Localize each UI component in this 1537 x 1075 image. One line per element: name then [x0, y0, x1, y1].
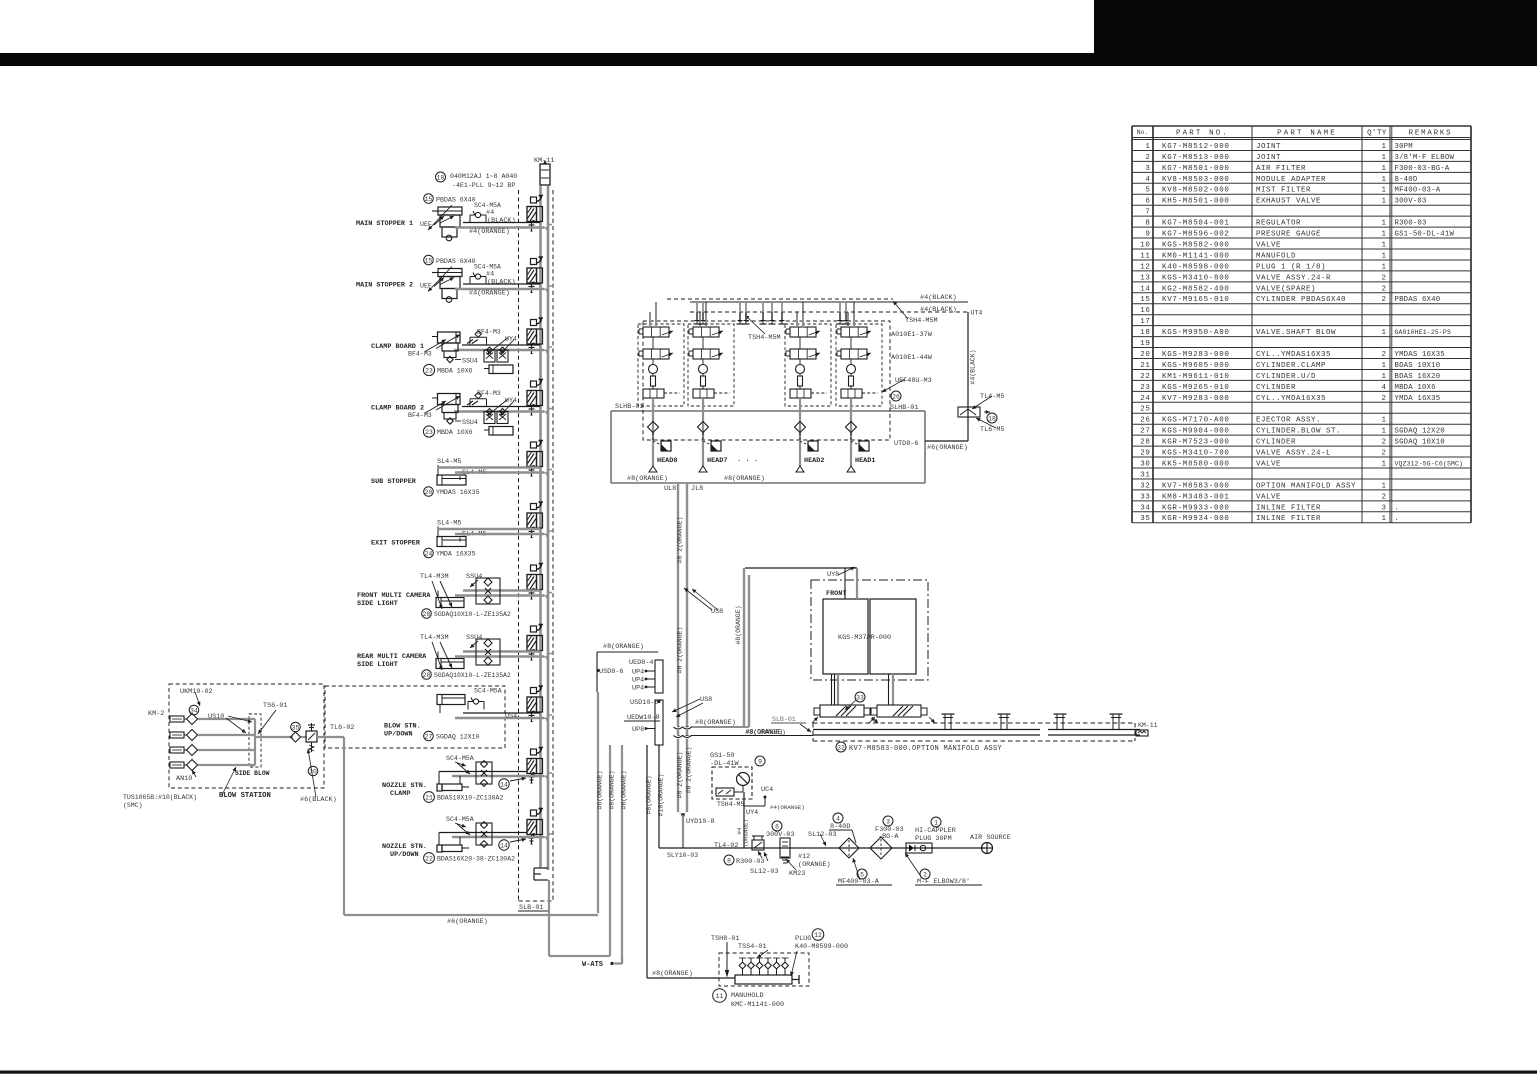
- svg-text:SGDAQ10X10-L-ZE135A2: SGDAQ10X10-L-ZE135A2: [434, 672, 511, 679]
- svg-text:#8(ORANGE): #8(ORANGE): [627, 475, 668, 483]
- svg-text:GS1-50-DL-41W: GS1-50-DL-41W: [1395, 231, 1455, 239]
- svg-text:CYLINDER: CYLINDER: [1256, 439, 1296, 447]
- svg-text:US8: US8: [700, 696, 712, 704]
- svg-text:KV7-M8583-000.OPTION MANIFOLD: KV7-M8583-000.OPTION MANIFOLD ASSY: [849, 745, 1003, 753]
- svg-text:4: 4: [1145, 176, 1150, 184]
- svg-text:(ORANGE): (ORANGE): [798, 861, 831, 869]
- svg-text:UED8-4: UED8-4: [629, 659, 653, 667]
- svg-text:SGDAQ 10X10: SGDAQ 10X10: [1395, 439, 1445, 447]
- svg-text:2: 2: [1145, 154, 1150, 162]
- svg-text:23: 23: [1140, 384, 1150, 392]
- svg-text:VALVE ASSY.24-R: VALVE ASSY.24-R: [1256, 274, 1331, 282]
- svg-text:UP4: UP4: [632, 669, 644, 677]
- svg-text:27: 27: [1140, 428, 1150, 436]
- svg-text:KG2-M8582-400: KG2-M8582-400: [1162, 285, 1230, 293]
- svg-text:1: 1: [1381, 428, 1386, 436]
- svg-text:#6(ORANGE): #6(ORANGE): [927, 444, 968, 452]
- svg-text:FRONT: FRONT: [826, 590, 846, 598]
- svg-text:18: 18: [1140, 329, 1150, 337]
- svg-text:REAR MULTI CAMERA: REAR MULTI CAMERA: [357, 653, 427, 661]
- svg-text:MF400-03-A: MF400-03-A: [1395, 187, 1441, 195]
- svg-text:UTD8-6: UTD8-6: [894, 440, 918, 448]
- svg-text:PLUG: PLUG: [795, 935, 811, 943]
- svg-text:1: 1: [1381, 187, 1386, 195]
- svg-text:F300-03-BG-A: F300-03-BG-A: [1395, 165, 1450, 173]
- svg-text:17: 17: [1140, 318, 1150, 326]
- svg-text:3/8'M-F ELBOW: 3/8'M-F ELBOW: [1395, 154, 1455, 162]
- svg-text:KV8-M8503-000: KV8-M8503-000: [1162, 176, 1230, 184]
- svg-text:24: 24: [1140, 395, 1150, 403]
- svg-text:AIR FILTER: AIR FILTER: [1256, 165, 1306, 173]
- svg-text:MAIN STOPPER 2: MAIN STOPPER 2: [356, 282, 413, 290]
- svg-text:28: 28: [1140, 439, 1150, 447]
- svg-text:SLHB-01: SLHB-01: [615, 403, 644, 411]
- svg-text:23: 23: [425, 368, 433, 375]
- svg-text:11: 11: [716, 993, 724, 1000]
- svg-text:.: .: [1395, 504, 1400, 512]
- svg-text:32: 32: [837, 745, 845, 752]
- svg-text:TSH4-M5M: TSH4-M5M: [905, 317, 938, 325]
- svg-text:21: 21: [425, 795, 433, 802]
- svg-text:MAIN STOPPER 1: MAIN STOPPER 1: [356, 220, 413, 228]
- svg-text:SSU4: SSU4: [466, 573, 482, 581]
- svg-text:EXIT STOPPER: EXIT STOPPER: [371, 540, 421, 548]
- svg-text:CYLINDER: CYLINDER: [1256, 384, 1296, 392]
- svg-text:PBDAS 6X40: PBDAS 6X40: [436, 258, 476, 265]
- svg-text:TL4-02: TL4-02: [714, 842, 738, 850]
- svg-text:1: 1: [1381, 165, 1386, 173]
- svg-text:PBDAS 6X40: PBDAS 6X40: [436, 197, 476, 204]
- svg-text:KH5-M8501-000: KH5-M8501-000: [1162, 198, 1230, 206]
- svg-text:35: 35: [292, 725, 300, 732]
- svg-text:TSH8-01: TSH8-01: [711, 935, 740, 943]
- svg-text:1: 1: [1381, 460, 1386, 468]
- svg-text:6: 6: [775, 824, 779, 831]
- svg-text:21: 21: [1140, 362, 1150, 370]
- svg-text:Q'TY: Q'TY: [1367, 129, 1387, 137]
- svg-text:SIDE BLOW: SIDE BLOW: [235, 770, 270, 777]
- svg-text:KG7-M8504-001: KG7-M8504-001: [1162, 220, 1230, 228]
- svg-text:SGDAQ10X10-L-ZE135A2: SGDAQ10X10-L-ZE135A2: [434, 611, 511, 618]
- svg-text:#8(ORANGE): #8(ORANGE): [735, 605, 742, 644]
- svg-text:1: 1: [1381, 252, 1386, 260]
- svg-text:US4: US4: [505, 713, 517, 721]
- svg-text:25: 25: [1140, 406, 1150, 414]
- svg-text:24: 24: [425, 551, 433, 558]
- svg-text:14: 14: [500, 782, 508, 789]
- svg-text:6: 6: [1145, 198, 1150, 206]
- svg-text:KMC-M1141-000: KMC-M1141-000: [731, 1001, 784, 1009]
- svg-text:SL12-03: SL12-03: [750, 868, 779, 876]
- svg-text:TSH4-M5M: TSH4-M5M: [748, 334, 781, 342]
- svg-text:9: 9: [1145, 231, 1150, 239]
- svg-text:20: 20: [1140, 351, 1150, 359]
- svg-text:UYD10-8: UYD10-8: [686, 818, 715, 826]
- svg-text:TL6-M5: TL6-M5: [980, 426, 1004, 434]
- svg-text:300V-03: 300V-03: [1395, 198, 1427, 206]
- svg-text:2: 2: [1381, 439, 1386, 447]
- svg-text:#4(ORANGE): #4(ORANGE): [469, 228, 510, 236]
- svg-text:2: 2: [1381, 351, 1386, 359]
- svg-text:BLOW STN.: BLOW STN.: [384, 723, 421, 731]
- svg-text:#8(ORANGE): #8(ORANGE): [746, 729, 783, 736]
- svg-text:UY8: UY8: [827, 571, 839, 579]
- svg-text:TSH4-M5: TSH4-M5: [717, 801, 744, 808]
- svg-text:KG7-M8513-000: KG7-M8513-000: [1162, 154, 1230, 162]
- svg-text:KM-2: KM-2: [148, 710, 164, 718]
- svg-text:GA010HE1-25-PS: GA010HE1-25-PS: [1395, 329, 1452, 336]
- svg-text:BDAS 10X10: BDAS 10X10: [1395, 362, 1441, 370]
- svg-text:INLINE FILTER: INLINE FILTER: [1256, 515, 1321, 523]
- svg-text:15: 15: [425, 196, 433, 203]
- svg-text:26: 26: [1140, 417, 1150, 425]
- svg-text:YMDA 16X35: YMDA 16X35: [1395, 395, 1441, 403]
- svg-text:4: 4: [836, 816, 840, 823]
- svg-text:33: 33: [856, 695, 864, 702]
- svg-text:11: 11: [1140, 252, 1150, 260]
- svg-text:VALVE: VALVE: [1256, 460, 1281, 468]
- svg-text:#8(ORANGE): #8(ORANGE): [603, 643, 644, 651]
- svg-text:SC4-M5A: SC4-M5A: [474, 688, 502, 695]
- svg-text:1: 1: [1381, 362, 1386, 370]
- svg-text:TUS1065B:#10(BLACK): TUS1065B:#10(BLACK): [123, 794, 197, 801]
- svg-text:2: 2: [1381, 285, 1386, 293]
- svg-text:22: 22: [1140, 373, 1150, 381]
- svg-text:HEAD1: HEAD1: [855, 457, 875, 465]
- svg-text:3: 3: [886, 819, 890, 826]
- svg-text:12: 12: [814, 932, 822, 939]
- svg-text:VALVE ASSY.24-L: VALVE ASSY.24-L: [1256, 450, 1331, 458]
- svg-text:TL4-M3M: TL4-M3M: [420, 573, 449, 581]
- svg-text:#8(ORANGE): #8(ORANGE): [609, 770, 616, 809]
- svg-text:1: 1: [1381, 373, 1386, 381]
- svg-text:GS1-50: GS1-50: [710, 752, 734, 760]
- svg-text:#4: #4: [486, 271, 494, 279]
- svg-text:JOINT: JOINT: [1256, 154, 1281, 162]
- svg-text:MODULE ADAPTER: MODULE ADAPTER: [1256, 176, 1326, 184]
- svg-text:CYLINDER.BLOW ST.: CYLINDER.BLOW ST.: [1256, 428, 1341, 436]
- svg-text:SIDE LIGHT: SIDE LIGHT: [357, 661, 398, 669]
- svg-text:1: 1: [1381, 176, 1386, 184]
- svg-text:REMARKS: REMARKS: [1409, 129, 1453, 137]
- svg-text:15: 15: [425, 258, 433, 265]
- svg-text:UP/DOWN: UP/DOWN: [390, 851, 419, 859]
- svg-text:#4(BLACK): #4(BLACK): [920, 306, 957, 314]
- svg-text:#4(BLACK): #4(BLACK): [920, 294, 957, 302]
- svg-text:-4E1-PLL 9~12 BP: -4E1-PLL 9~12 BP: [452, 182, 515, 189]
- svg-text:YMDA 16X35: YMDA 16X35: [436, 551, 476, 558]
- svg-text:USD8-6: USD8-6: [599, 668, 623, 676]
- svg-text:1: 1: [1381, 263, 1386, 271]
- svg-text:#4: #4: [486, 209, 494, 217]
- svg-text:(ORANGE): (ORANGE): [743, 819, 750, 847]
- svg-text:#8 2(ORANGE): #8 2(ORANGE): [677, 752, 684, 799]
- svg-text:CYLINDER.CLAMP: CYLINDER.CLAMP: [1256, 362, 1326, 370]
- svg-text:30: 30: [309, 769, 317, 776]
- svg-text:13: 13: [1140, 274, 1150, 282]
- svg-text:2: 2: [1381, 274, 1386, 282]
- svg-text:SLY10-03: SLY10-03: [667, 852, 698, 859]
- svg-text:KV7-M9165-010: KV7-M9165-010: [1162, 296, 1230, 304]
- svg-text:SGDAQ 12X20: SGDAQ 12X20: [1395, 428, 1445, 436]
- svg-text:7: 7: [1145, 209, 1150, 217]
- svg-text:SC4-M5A: SC4-M5A: [474, 202, 501, 209]
- svg-text:TL6-02: TL6-02: [330, 724, 354, 732]
- svg-text:1: 1: [1381, 241, 1386, 249]
- svg-text:UP4: UP4: [632, 685, 644, 693]
- svg-text:SC4-M5A: SC4-M5A: [474, 264, 501, 271]
- svg-text:KGS-M3410-800: KGS-M3410-800: [1162, 274, 1230, 282]
- svg-text:KM8-M3483-001: KM8-M3483-001: [1162, 493, 1230, 501]
- svg-text:YMDAS 16X35: YMDAS 16X35: [436, 489, 480, 496]
- svg-text:HI-CAPPLER: HI-CAPPLER: [915, 827, 956, 835]
- svg-text:SLB-01: SLB-01: [772, 716, 796, 723]
- svg-text:35: 35: [1140, 515, 1150, 523]
- svg-text:1: 1: [1381, 482, 1386, 490]
- svg-text:OPTION MANIFOLD ASSY: OPTION MANIFOLD ASSY: [1256, 482, 1356, 490]
- svg-text:KGS-M7170-A00: KGS-M7170-A00: [1162, 417, 1230, 425]
- svg-text:KM1-M9611-010: KM1-M9611-010: [1162, 373, 1230, 381]
- svg-text:MIST FILTER: MIST FILTER: [1256, 187, 1311, 195]
- svg-text:UT4: UT4: [971, 310, 983, 317]
- svg-text:33: 33: [1140, 493, 1150, 501]
- svg-text:12: 12: [1140, 263, 1150, 271]
- svg-text:VALVE.SHAFT BLOW: VALVE.SHAFT BLOW: [1256, 329, 1336, 337]
- svg-text:BLOW STATION: BLOW STATION: [219, 792, 271, 800]
- svg-text:AIR SOURCE: AIR SOURCE: [970, 834, 1011, 842]
- svg-text:UEF48U-M3: UEF48U-M3: [895, 377, 932, 385]
- svg-text:28: 28: [423, 672, 431, 679]
- svg-text:SSU4: SSU4: [462, 358, 478, 365]
- svg-text:BDAS10X10-ZC130A2: BDAS10X10-ZC130A2: [437, 795, 503, 802]
- svg-text:HEAD7: HEAD7: [707, 457, 727, 465]
- svg-text:040M12AJ 1~8 A040: 040M12AJ 1~8 A040: [450, 173, 517, 180]
- svg-text:31: 31: [1140, 471, 1150, 479]
- svg-text:UY4: UY4: [746, 809, 758, 817]
- svg-text:TSS4-01: TSS4-01: [738, 943, 767, 951]
- svg-text:32: 32: [1140, 482, 1150, 490]
- svg-text:CYLINDER PBDAS6X40: CYLINDER PBDAS6X40: [1256, 296, 1346, 304]
- svg-text:SC4-M5A: SC4-M5A: [446, 816, 474, 823]
- svg-text:VALVE: VALVE: [1256, 493, 1281, 501]
- svg-text:2: 2: [1381, 395, 1386, 403]
- svg-text:BDAS16X20-38-ZC130A2: BDAS16X20-38-ZC130A2: [437, 856, 515, 863]
- svg-text:#12: #12: [798, 853, 810, 861]
- svg-text:A010E1-44W: A010E1-44W: [891, 354, 933, 362]
- svg-text:2: 2: [1381, 296, 1386, 304]
- svg-text:CYL..YMDA16X35: CYL..YMDA16X35: [1256, 395, 1326, 403]
- svg-text:14: 14: [1140, 285, 1150, 293]
- svg-text:SIDE LIGHT: SIDE LIGHT: [357, 600, 398, 608]
- svg-text:SC4-M5A: SC4-M5A: [446, 755, 474, 762]
- svg-text:27: 27: [425, 734, 433, 741]
- svg-text:No.: No.: [1137, 129, 1148, 136]
- svg-text:#8(ORANGE): #8(ORANGE): [695, 719, 736, 727]
- svg-text:MBDA 10X6: MBDA 10X6: [1395, 384, 1436, 392]
- svg-text:#4(ORANGE): #4(ORANGE): [770, 804, 805, 811]
- svg-text:USD10-8: USD10-8: [630, 699, 659, 707]
- svg-text:KGS-M9904-000: KGS-M9904-000: [1162, 428, 1230, 436]
- svg-text:W-ATS: W-ATS: [582, 961, 603, 969]
- svg-text:EXHAUST VALVE: EXHAUST VALVE: [1256, 198, 1321, 206]
- svg-text:#8 2(ORANGE): #8 2(ORANGE): [686, 747, 693, 794]
- svg-text:TS6-01: TS6-01: [263, 702, 287, 710]
- svg-text:29: 29: [1140, 450, 1150, 458]
- svg-text:VALVE: VALVE: [1256, 241, 1281, 249]
- svg-text:SL4-M5: SL4-M5: [437, 458, 461, 466]
- svg-text:3: 3: [1381, 504, 1386, 512]
- svg-text:KGS-M37AR-000: KGS-M37AR-000: [838, 634, 891, 642]
- svg-text:K40-M8598-000: K40-M8598-000: [1162, 263, 1230, 271]
- svg-text:KM-11: KM-11: [1138, 722, 1158, 729]
- svg-text:KGS-M9605-000: KGS-M9605-000: [1162, 362, 1230, 370]
- svg-text:5: 5: [1145, 187, 1150, 195]
- svg-text:2: 2: [1381, 493, 1386, 501]
- svg-text:PART NO.: PART NO.: [1176, 129, 1229, 137]
- svg-text:1: 1: [1381, 515, 1386, 523]
- svg-text:SSU4: SSU4: [466, 634, 482, 642]
- svg-text:1: 1: [1381, 329, 1386, 337]
- svg-text:R300-03: R300-03: [736, 858, 765, 866]
- svg-text:AN10: AN10: [176, 775, 192, 783]
- svg-text:19: 19: [1140, 340, 1150, 348]
- svg-text:MBDA 10X6: MBDA 10X6: [437, 429, 473, 436]
- svg-text:8-40D: 8-40D: [1395, 176, 1418, 184]
- svg-text:22: 22: [425, 856, 433, 863]
- svg-text:SUB STOPPER: SUB STOPPER: [371, 478, 417, 486]
- svg-text:(BLACK): (BLACK): [487, 217, 516, 225]
- svg-text:26: 26: [892, 394, 900, 401]
- svg-text:#8(ORANGE): #8(ORANGE): [621, 770, 628, 809]
- svg-text:8: 8: [1145, 220, 1150, 228]
- svg-text:KV7-M9283-000: KV7-M9283-000: [1162, 395, 1230, 403]
- svg-text:PBDAS 6X40: PBDAS 6X40: [1395, 296, 1441, 304]
- svg-text:K40-M8598-000: K40-M8598-000: [795, 943, 848, 951]
- svg-text:KK5-M8580-000: KK5-M8580-000: [1162, 460, 1230, 468]
- svg-text:SGDAQ 12X10: SGDAQ 12X10: [436, 734, 480, 741]
- svg-text:BF4-M3: BF4-M3: [408, 412, 432, 419]
- svg-text:8: 8: [727, 858, 731, 865]
- svg-text:#6(ORANGE): #6(ORANGE): [447, 918, 488, 926]
- svg-text:KGR-M7523-000: KGR-M7523-000: [1162, 439, 1230, 447]
- svg-text:3: 3: [1145, 165, 1150, 173]
- svg-text:KGR-M9933-000: KGR-M9933-000: [1162, 504, 1230, 512]
- svg-text:REGULATOR: REGULATOR: [1256, 220, 1301, 228]
- svg-text:2: 2: [1381, 450, 1386, 458]
- svg-text:UP4: UP4: [632, 677, 644, 685]
- svg-text:#6(BLACK): #6(BLACK): [300, 796, 337, 804]
- svg-text:MANUHOLD: MANUHOLD: [731, 992, 764, 1000]
- svg-text:18: 18: [988, 416, 996, 423]
- svg-text:BDAS 16X20: BDAS 16X20: [1395, 373, 1441, 381]
- svg-text:PART NAME: PART NAME: [1277, 129, 1337, 137]
- svg-text:#8(ORANGE): #8(ORANGE): [652, 970, 693, 978]
- svg-text:16: 16: [1140, 307, 1150, 315]
- svg-text:KG7-M8596-002: KG7-M8596-002: [1162, 231, 1230, 239]
- svg-text:KGR-M9934-000: KGR-M9934-000: [1162, 515, 1230, 523]
- svg-text:. . .: . . .: [737, 456, 758, 464]
- svg-text:-BG-A: -BG-A: [878, 833, 899, 841]
- svg-text:KGS-M8582-000: KGS-M8582-000: [1162, 241, 1230, 249]
- svg-text:1: 1: [1145, 143, 1150, 151]
- svg-text:#8(ORANGE): #8(ORANGE): [646, 775, 653, 814]
- svg-text:SLHB-01: SLHB-01: [890, 404, 919, 412]
- svg-text:28: 28: [423, 611, 431, 618]
- svg-text:KV7-M8583-000: KV7-M8583-000: [1162, 482, 1230, 490]
- svg-text:KV8-M8502-000: KV8-M8502-000: [1162, 187, 1230, 195]
- svg-text:1: 1: [934, 820, 938, 827]
- svg-text:9: 9: [758, 759, 762, 766]
- svg-text:10: 10: [437, 175, 445, 182]
- svg-text:#8 2(ORANGE): #8 2(ORANGE): [677, 517, 684, 564]
- svg-text:#8(ORANGE): #8(ORANGE): [724, 475, 765, 483]
- svg-text:KM23: KM23: [789, 870, 805, 878]
- svg-text:PLUG 30PM: PLUG 30PM: [915, 835, 952, 843]
- svg-text:BF4-M3: BF4-M3: [408, 351, 432, 358]
- svg-text:A010E1-37W: A010E1-37W: [891, 331, 933, 339]
- svg-text:#4(ORANGE): #4(ORANGE): [469, 290, 510, 298]
- svg-text:FRONT MULTI CAMERA: FRONT MULTI CAMERA: [357, 592, 431, 600]
- svg-text:SSU4: SSU4: [462, 419, 478, 426]
- svg-text:SL4-M5: SL4-M5: [437, 520, 461, 528]
- svg-text:(SMC): (SMC): [123, 802, 143, 809]
- svg-text:JOINT: JOINT: [1256, 143, 1281, 151]
- svg-text:R300-03: R300-03: [1395, 220, 1427, 228]
- svg-text:UP/DOWN: UP/DOWN: [384, 731, 413, 739]
- svg-text:MBDA 10X6: MBDA 10X6: [437, 368, 473, 375]
- svg-text:34: 34: [1140, 504, 1150, 512]
- svg-text:TL4-M3M: TL4-M3M: [420, 634, 449, 642]
- svg-text:NOZZLE STN.: NOZZLE STN.: [382, 843, 427, 851]
- svg-text:1: 1: [1381, 154, 1386, 162]
- svg-text:JL8: JL8: [691, 485, 703, 493]
- svg-text:TL4-M5: TL4-M5: [980, 393, 1004, 401]
- svg-text:1: 1: [1381, 231, 1386, 239]
- svg-text:PLUG 1 (R 1/8): PLUG 1 (R 1/8): [1256, 263, 1326, 271]
- svg-text:INLINE FILTER: INLINE FILTER: [1256, 504, 1321, 512]
- svg-text:14: 14: [500, 843, 508, 850]
- svg-text:EJECTOR ASSY.: EJECTOR ASSY.: [1256, 417, 1321, 425]
- svg-text:(BLACK): (BLACK): [487, 279, 516, 287]
- svg-text:#4(BLACK): #4(BLACK): [970, 349, 977, 384]
- svg-text:20: 20: [425, 489, 433, 496]
- svg-text:KGS-M9265-010: KGS-M9265-010: [1162, 384, 1230, 392]
- svg-text:30: 30: [1140, 460, 1150, 468]
- svg-text:CYLINDER.U/D: CYLINDER.U/D: [1256, 373, 1316, 381]
- svg-text:#8 2(ORANGE): #8 2(ORANGE): [677, 627, 684, 674]
- svg-text:KGS-M9950-A00: KGS-M9950-A00: [1162, 329, 1230, 337]
- svg-text:HEAD8: HEAD8: [657, 457, 677, 465]
- svg-text:PRESURE GAUGE: PRESURE GAUGE: [1256, 231, 1321, 239]
- svg-text:1: 1: [1381, 198, 1386, 206]
- svg-text:#6(ORANGE): #6(ORANGE): [597, 770, 604, 809]
- svg-text:1: 1: [1381, 417, 1386, 425]
- svg-text:UC4: UC4: [761, 786, 773, 794]
- svg-text:HEAD2: HEAD2: [804, 457, 824, 465]
- svg-text:KGS-M3410-700: KGS-M3410-700: [1162, 450, 1230, 458]
- svg-text:4: 4: [1381, 384, 1386, 392]
- svg-text:15: 15: [1140, 296, 1150, 304]
- svg-text:1: 1: [1381, 143, 1386, 151]
- svg-text:.: .: [1395, 515, 1400, 523]
- svg-text:UL8: UL8: [664, 485, 676, 493]
- svg-text:VALVE(SPARE): VALVE(SPARE): [1256, 285, 1316, 293]
- svg-text:VQZ312-5G-C6(SMC): VQZ312-5G-C6(SMC): [1395, 460, 1464, 467]
- svg-text:23: 23: [425, 429, 433, 436]
- svg-text:KG7-M8501-000: KG7-M8501-000: [1162, 165, 1230, 173]
- svg-text:30PM: 30PM: [1395, 143, 1413, 151]
- svg-text:YMDAS 16X35: YMDAS 16X35: [1395, 351, 1445, 359]
